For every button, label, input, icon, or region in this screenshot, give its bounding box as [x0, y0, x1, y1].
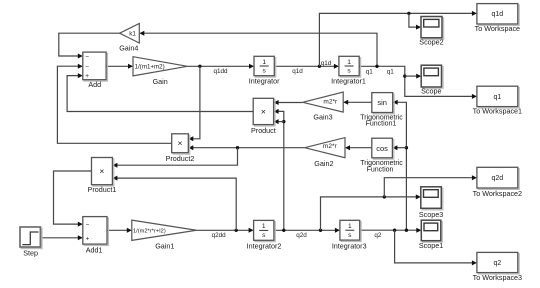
- svg-text:k1: k1: [129, 31, 136, 38]
- svg-text:m2*r: m2*r: [323, 98, 338, 105]
- wire Add1 output to Gain1 input: [107, 229, 129, 231]
- svg-text:q1: q1: [366, 68, 374, 75]
- svg-text:q2: q2: [493, 260, 501, 267]
- wire q2 branch down to To Workspace3: [395, 230, 475, 263]
- gain Gain4 k1 (mirrored): [119, 24, 139, 53]
- node q2d junction to Product: [282, 229, 285, 232]
- product Product: [251, 98, 276, 135]
- svg-text:To Workspace2: To Workspace2: [473, 189, 522, 198]
- svg-text:q2dd: q2dd: [212, 232, 227, 239]
- svg-text:Gain3: Gain3: [313, 112, 332, 121]
- node junction to Product input3: [282, 120, 285, 123]
- wire q2d branch up to Scope3: [321, 197, 419, 230]
- svg-text:Add: Add: [88, 80, 101, 89]
- gain Gain2 m2*r (mirrored): [305, 138, 345, 168]
- node q2d junction to Scope3: [319, 229, 322, 232]
- wire q1 feedback up to Gain4 input: [142, 33, 378, 66]
- to workspace To Workspace1 q1: [473, 86, 522, 115]
- node junction to To Workspace2: [383, 195, 386, 198]
- integrator Integrator1: [331, 56, 366, 85]
- svg-text:To Workspace1: To Workspace1: [473, 107, 522, 116]
- node q2dd junction: [235, 229, 238, 232]
- svg-text:Gain1: Gain1: [155, 241, 174, 250]
- scope Scope1: [419, 220, 443, 250]
- svg-text:1: 1: [347, 59, 351, 66]
- node junction to Product1 input1: [236, 146, 239, 149]
- product Product2: [166, 134, 195, 163]
- product Product1: [88, 158, 117, 195]
- svg-text:Product: Product: [251, 126, 276, 135]
- wire Product output to Add input3: [67, 76, 253, 112]
- svg-text:1: 1: [262, 223, 266, 230]
- wire cos output to Gain2 input: [348, 147, 372, 149]
- wire Gain output q1dd to Integrator input: [187, 65, 251, 67]
- sum block Add: [83, 52, 108, 89]
- svg-text:sin: sin: [377, 98, 387, 107]
- node junction to Scope2: [407, 12, 410, 15]
- svg-text:1: 1: [348, 223, 352, 230]
- svg-text:Scope3: Scope3: [419, 210, 443, 219]
- svg-text:q1dd: q1dd: [213, 68, 228, 75]
- to workspace To Workspace2 q2d: [473, 167, 522, 198]
- svg-text:Step: Step: [23, 248, 38, 257]
- wire q2d up feed to Product inputs: [276, 111, 284, 230]
- trig function cos: [360, 138, 403, 173]
- sum block Add1: [83, 217, 109, 255]
- wire Gain1 output q2dd to Integrator2 input: [196, 229, 251, 231]
- svg-text:Scope1: Scope1: [419, 241, 443, 250]
- scope Scope: [421, 65, 443, 96]
- wire q2dd branch up to Product1 input2: [115, 178, 236, 230]
- integrator Integrator: [249, 56, 280, 85]
- wire branch to Product input3: [276, 121, 284, 123]
- wire branch to Scope: [405, 75, 419, 77]
- svg-text:1/(m2*r*r+I2): 1/(m2*r*r+I2): [133, 228, 166, 234]
- svg-text:Integrator3: Integrator3: [332, 241, 367, 250]
- wire q2 up feed to sin input: [395, 102, 406, 230]
- node q1 junction to Scope: [403, 74, 406, 77]
- wire Add output to Gain input: [106, 65, 130, 67]
- svg-text:Integrator1: Integrator1: [331, 76, 366, 85]
- svg-text:To Workspace: To Workspace: [475, 24, 520, 33]
- svg-text:Product1: Product1: [88, 185, 117, 194]
- svg-text:×: ×: [177, 138, 182, 148]
- integrator Integrator3: [332, 220, 367, 250]
- wire Integrator1 output q1 to Scope and To Workspace1: [359, 66, 474, 96]
- svg-text:Gain2: Gain2: [314, 159, 333, 168]
- node q2 junction to To Workspace3: [393, 229, 396, 232]
- wire sin output to Gain3 input: [346, 101, 372, 103]
- wire branch to cos input: [395, 147, 407, 149]
- svg-text:q1: q1: [387, 68, 395, 75]
- wire branch down to Scope2: [409, 13, 419, 27]
- wire Gain2 output to Product2 input2: [191, 147, 305, 149]
- svg-text:Function: Function: [367, 166, 394, 173]
- svg-text:+: +: [86, 236, 90, 243]
- svg-text:q2d: q2d: [492, 175, 504, 182]
- scope Scope3: [419, 187, 443, 219]
- wire Gain3 output to Product input1: [276, 102, 303, 104]
- svg-text:−: −: [85, 64, 89, 71]
- wire Product1 output to Add1 input1: [54, 171, 92, 224]
- gain Gain3 m2*r (mirrored): [303, 92, 344, 121]
- trig function sin: [360, 93, 403, 128]
- step source Step: [20, 227, 42, 257]
- svg-text:q1d: q1d: [292, 68, 303, 75]
- svg-text:Gain: Gain: [153, 77, 168, 86]
- wire Integrator2 output q2d to Integrator3 input: [274, 229, 338, 231]
- svg-text:−: −: [86, 222, 90, 229]
- svg-text:Integrator2: Integrator2: [247, 241, 282, 250]
- svg-text:×: ×: [99, 166, 104, 176]
- node junction to cos input: [405, 146, 408, 149]
- wire branch up to To Workspace2: [384, 178, 474, 197]
- svg-text:Scope: Scope: [421, 87, 441, 96]
- wire q1d branch up and right to To Workspace: [319, 13, 474, 66]
- svg-text:Gain4: Gain4: [119, 44, 138, 53]
- svg-text:1/(m1+m2): 1/(m1+m2): [135, 63, 165, 70]
- gain Gain1 1/(m2*r*r+I2): [132, 220, 197, 250]
- wire Integrator output q1d to Integrator1 input: [274, 65, 336, 67]
- svg-text:q2d: q2d: [296, 232, 307, 239]
- gain Gain 1/(m1+m2): [133, 57, 187, 86]
- svg-text:Function1: Function1: [366, 121, 397, 128]
- to workspace To Workspace q1d: [475, 4, 520, 33]
- wire Gain4 output to Add input1: [59, 33, 120, 56]
- svg-text:−: −: [85, 53, 89, 60]
- node q1 junction to Gain4 feedback: [375, 65, 378, 68]
- wire Product2 output to Add input2: [57, 66, 171, 143]
- wire q1dd branch down to Product2 input1: [191, 66, 200, 139]
- svg-text:+: +: [85, 73, 89, 80]
- to workspace To Workspace3 q2: [473, 252, 522, 282]
- wire Step output to Add1 input2: [41, 237, 81, 239]
- node q2 junction to trig feed: [405, 229, 408, 232]
- svg-text:To Workspace3: To Workspace3: [473, 273, 522, 282]
- integrator Integrator2: [247, 220, 282, 250]
- node q1d junction: [318, 65, 321, 68]
- wire Integrator3 output q2 to Scope1: [360, 229, 419, 231]
- svg-text:q1: q1: [493, 94, 501, 101]
- svg-text:Integrator: Integrator: [249, 76, 280, 85]
- svg-text:q1d: q1d: [492, 11, 504, 18]
- svg-text:Product2: Product2: [166, 154, 195, 163]
- node q1dd junction: [198, 65, 201, 68]
- svg-text:cos: cos: [376, 144, 388, 153]
- svg-text:m2*r: m2*r: [323, 143, 338, 150]
- svg-text:Scope2: Scope2: [419, 38, 443, 47]
- scope Scope2: [419, 17, 443, 47]
- svg-text:1: 1: [262, 59, 266, 66]
- svg-text:q1d: q1d: [321, 60, 332, 67]
- svg-text:×: ×: [261, 106, 266, 116]
- svg-text:q2: q2: [374, 232, 382, 239]
- svg-text:Add1: Add1: [86, 246, 103, 255]
- wire branch down to Product1 input1: [115, 148, 238, 166]
